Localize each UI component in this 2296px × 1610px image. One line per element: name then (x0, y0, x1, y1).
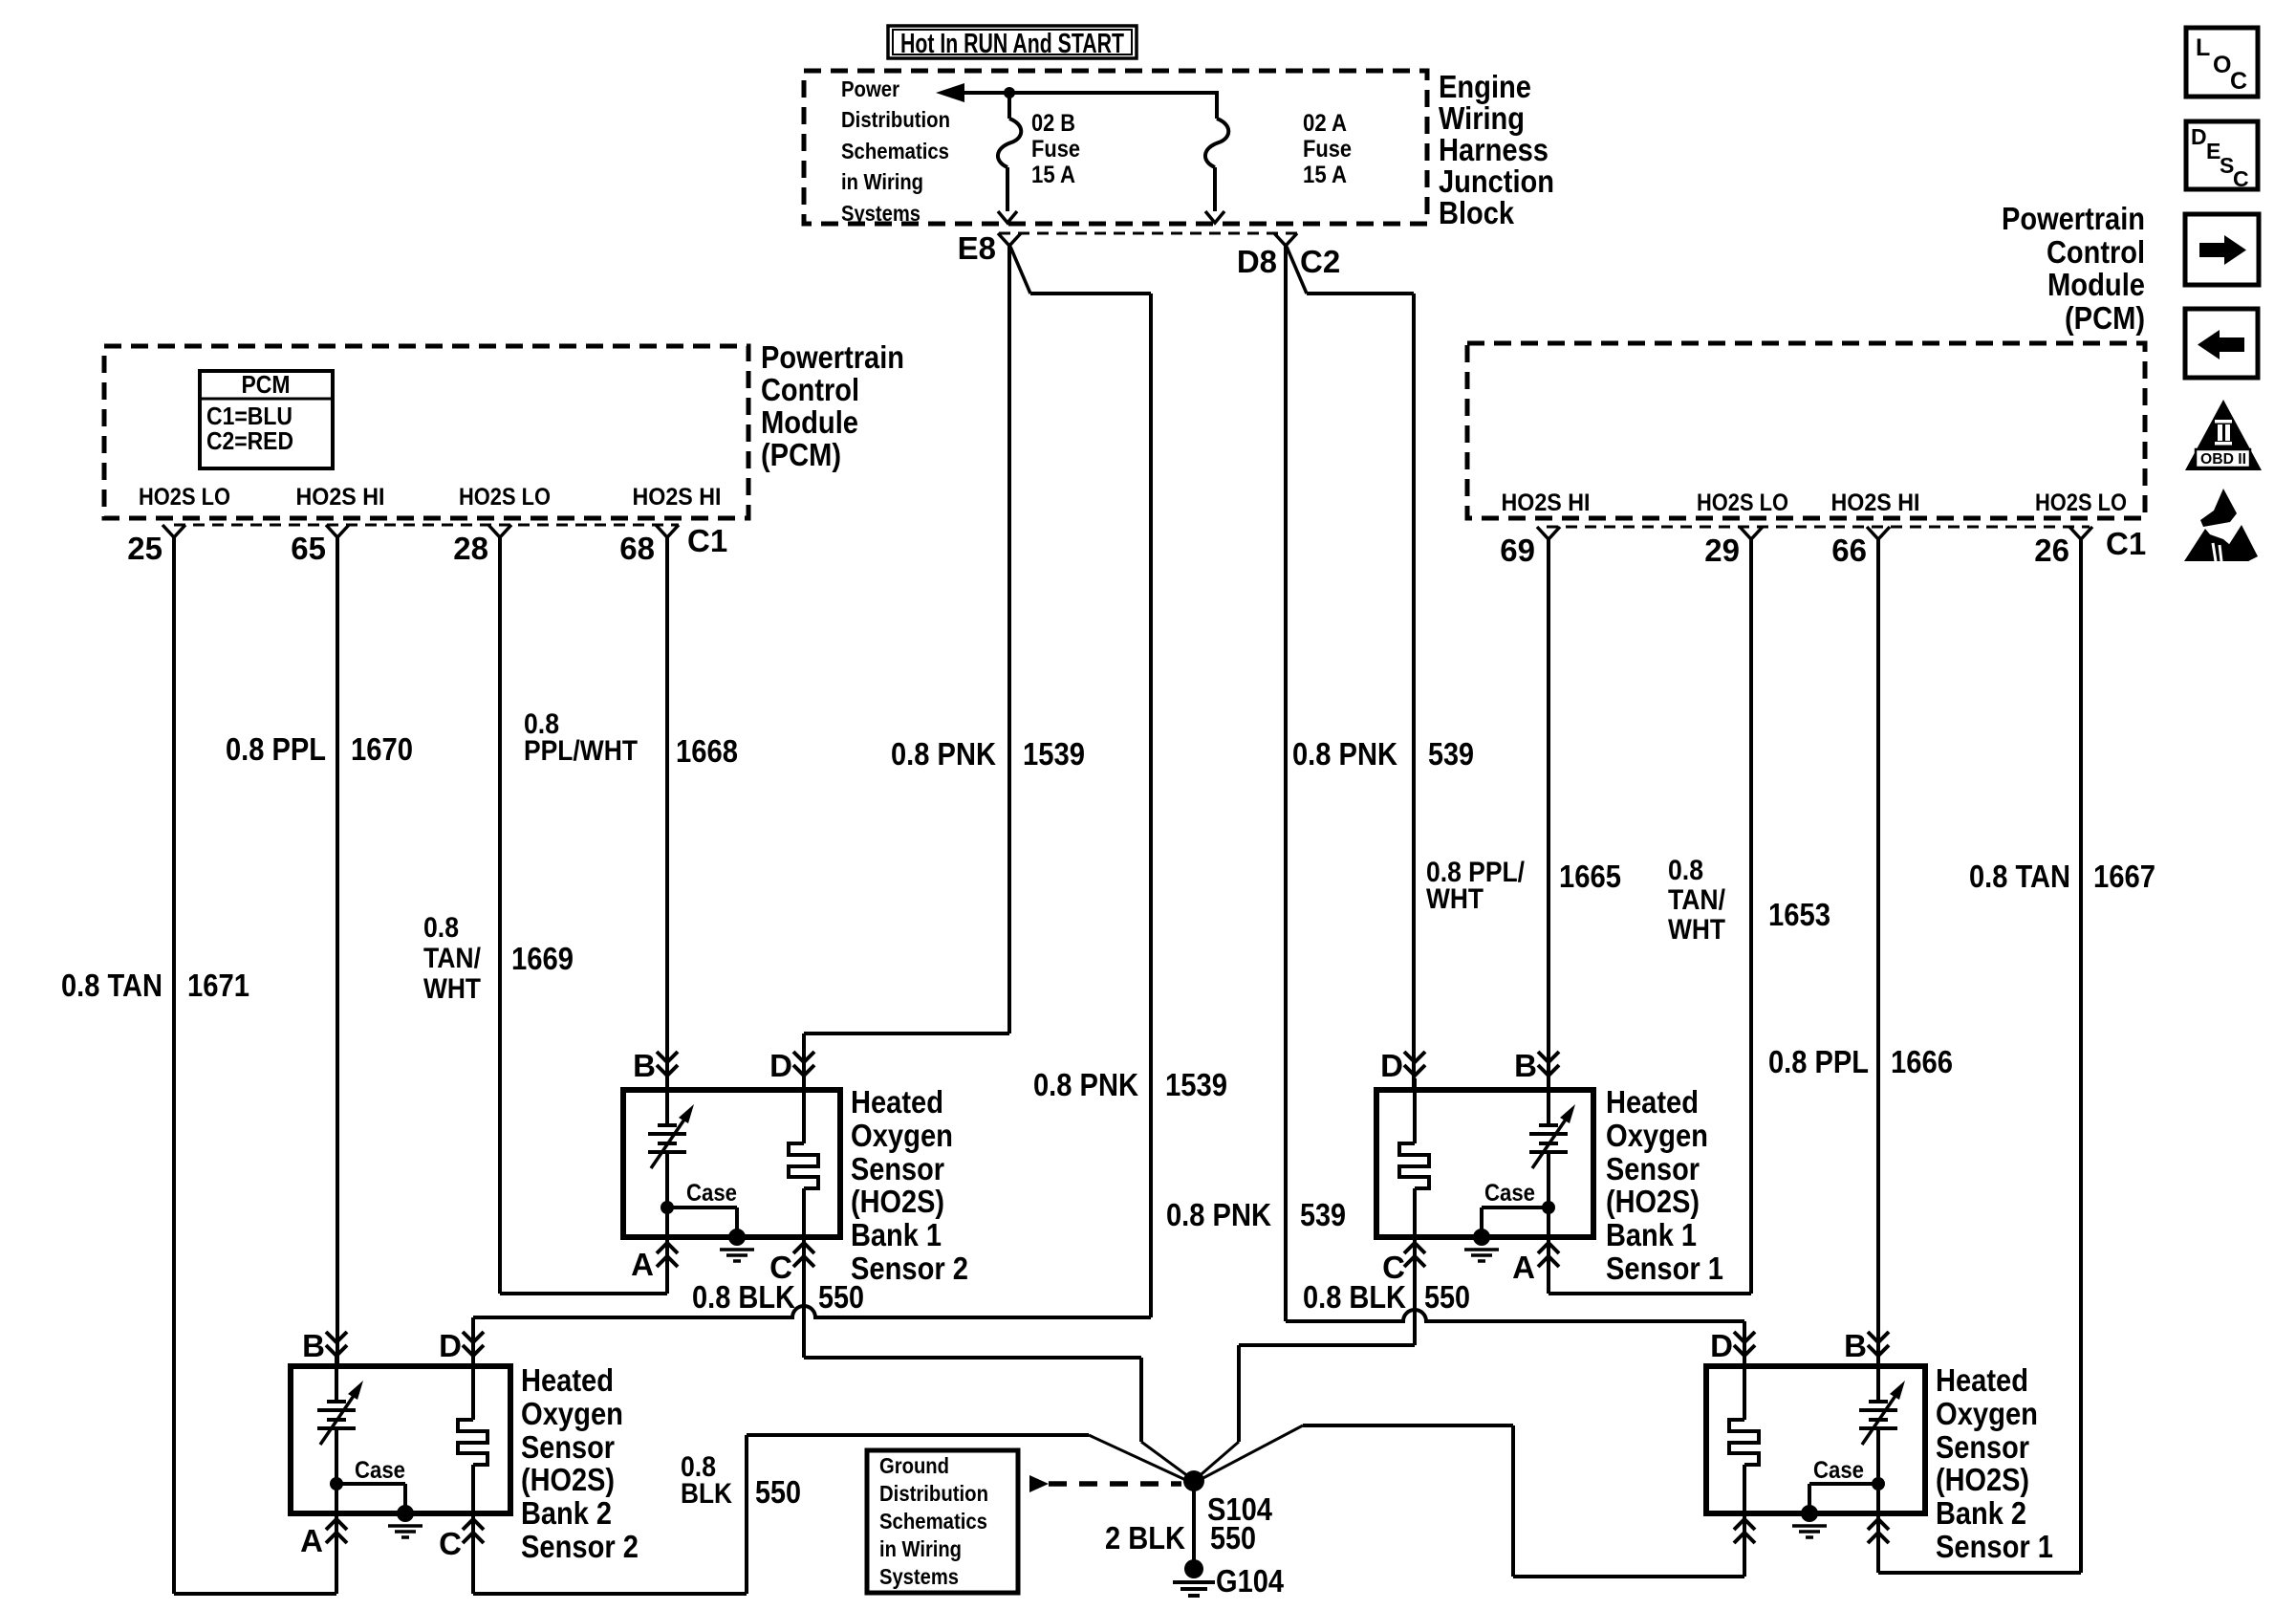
svg-text:in Wiring: in Wiring (841, 169, 923, 194)
left PCM C1 connector dashed line (174, 524, 679, 527)
svg-text:2 BLK: 2 BLK (1105, 1520, 1185, 1556)
wire 2 BLK 550 from S104 to G104 (1192, 1481, 1196, 1569)
HO2S Bank 2 Sensor 1 box (1706, 1366, 1925, 1513)
svg-text:(HO2S): (HO2S) (521, 1462, 615, 1497)
wire 0.8 PNK 539 from C2 down (1284, 245, 1288, 1321)
svg-text:Sensor: Sensor (521, 1429, 615, 1465)
svg-text:WHT: WHT (423, 973, 481, 1005)
svg-text:Module: Module (2047, 267, 2145, 302)
splice feed slant (B2S1) (1198, 1425, 1303, 1481)
B2S2 connector C chevrons (463, 1519, 484, 1530)
HO2S Bank 1 Sensor 2 box (623, 1090, 840, 1237)
svg-text:Oxygen: Oxygen (521, 1396, 623, 1431)
svg-text:Engine: Engine (1439, 69, 1531, 104)
svg-text:0.8 BLK: 0.8 BLK (1303, 1279, 1406, 1315)
B1S1 heater element (1399, 1143, 1429, 1188)
B2S1 connector B chevrons (1868, 1332, 1889, 1342)
svg-text:B: B (1514, 1048, 1537, 1083)
svg-text:1539: 1539 (1165, 1067, 1227, 1102)
svg-text:Fuse: Fuse (1303, 136, 1352, 163)
B1S2 connector C chevrons (793, 1243, 814, 1253)
dashed reference arrow to S104 (1029, 1475, 1049, 1492)
svg-text:Hot In RUN And START: Hot In RUN And START (900, 29, 1124, 59)
svg-text:A: A (300, 1523, 323, 1558)
wire: hot feed bus with arrow to power distribution (963, 91, 1217, 95)
B2S2 sensing element (327, 1400, 346, 1403)
svg-text:Systems: Systems (879, 1564, 959, 1589)
Powertrain Control Module PCM (right, dashed box) (1467, 343, 2145, 518)
svg-text:0.8 PNK: 0.8 PNK (1033, 1067, 1138, 1102)
svg-text:68: 68 (619, 531, 655, 566)
B1S1 case ground (1542, 1201, 1555, 1214)
svg-text:1671: 1671 (187, 968, 249, 1003)
wire 0.8 PPL 1666 from pin 66 to B2S1 sense B (1876, 538, 1880, 1366)
svg-text:HO2S LO: HO2S LO (2035, 490, 2127, 516)
svg-text:C2: C2 (1300, 244, 1340, 279)
B2S1 heater element (1729, 1420, 1759, 1465)
svg-text:D8: D8 (1237, 244, 1277, 279)
svg-text:1670: 1670 (351, 731, 413, 767)
svg-text:D: D (1380, 1048, 1403, 1083)
svg-text:1539: 1539 (1023, 736, 1085, 772)
wire 0.8 TAN/WHT 1653 from pin 29 to B1S1 sense A (1749, 538, 1753, 1294)
B2S2 sense wire B (335, 1355, 338, 1402)
svg-text:Sensor 2: Sensor 2 (521, 1529, 639, 1564)
pin 25 (162, 525, 185, 537)
power feed title box: Hot In RUN And START (888, 26, 1137, 58)
svg-text:Sensor 1: Sensor 1 (1606, 1251, 1723, 1286)
svg-text:D: D (439, 1328, 462, 1363)
svg-text:HO2S LO: HO2S LO (459, 484, 551, 511)
B1S1 sense wire B (1547, 1078, 1550, 1125)
svg-text:Distribution: Distribution (879, 1481, 988, 1506)
svg-text:WHT: WHT (1668, 914, 1725, 946)
svg-text:A: A (631, 1247, 654, 1282)
svg-text:Powertrain: Powertrain (761, 339, 904, 375)
svg-text:G104: G104 (1216, 1563, 1285, 1599)
svg-text:C: C (439, 1526, 462, 1561)
wire 0.8 TAN 1671 from pin 25 (172, 536, 176, 1594)
svg-text:PCM: PCM (242, 370, 291, 399)
junction block connector dashed line (999, 232, 1300, 235)
svg-text:Block: Block (1439, 195, 1515, 230)
wire 0.8 BLK 550 from B2S1 heater C (1743, 1513, 1746, 1577)
ground G104 (1184, 1559, 1203, 1578)
svg-text:(HO2S): (HO2S) (1606, 1184, 1700, 1219)
svg-text:HO2S HI: HO2S HI (1831, 490, 1920, 516)
pin 68 (656, 525, 679, 537)
wire 0.8 PNK 1539 from E8 down (1007, 245, 1011, 1033)
svg-text:Junction: Junction (1439, 163, 1554, 199)
svg-text:539: 539 (1428, 736, 1474, 772)
svg-text:1666: 1666 (1891, 1044, 1953, 1079)
svg-text:Bank 2: Bank 2 (521, 1495, 612, 1531)
svg-text:0.8 BLK: 0.8 BLK (692, 1279, 795, 1315)
pin 66 (1867, 527, 1890, 539)
B2S2 connector D chevrons (463, 1332, 484, 1342)
Engine Wiring Harness Junction Block (dashed box) (804, 71, 1427, 224)
svg-text:Heated: Heated (851, 1084, 943, 1120)
B1S2 sense wire B (665, 1078, 669, 1125)
svg-text:Systems: Systems (841, 201, 921, 226)
svg-text:Sensor 2: Sensor 2 (851, 1251, 968, 1286)
pin 69 (1537, 527, 1560, 539)
icon arrow left box (2185, 309, 2258, 378)
svg-text:C1: C1 (2106, 526, 2146, 561)
B1S1 sensing element (1539, 1123, 1558, 1127)
right PCM C1 connector dashed line (1547, 526, 2090, 529)
icon arrow right box (2185, 214, 2259, 285)
svg-text:0.8 PPL: 0.8 PPL (226, 731, 326, 767)
B1S2 heater element (789, 1143, 818, 1188)
svg-text:02 A: 02 A (1303, 110, 1347, 137)
svg-text:D: D (769, 1048, 792, 1083)
svg-text:HO2S HI: HO2S HI (1502, 490, 1591, 516)
svg-text:OBD II: OBD II (2200, 451, 2246, 468)
svg-text:Fuse: Fuse (1031, 136, 1080, 163)
icon LOC box (2186, 28, 2258, 97)
svg-text:550: 550 (755, 1474, 801, 1510)
wire 0.8 TAN/WHT 1669 from pin 28 to B1S2 sense A (498, 536, 502, 1294)
svg-text:Oxygen: Oxygen (1936, 1396, 2038, 1431)
B1S2 heater wire D (802, 1078, 806, 1143)
svg-text:Powertrain: Powertrain (2002, 201, 2145, 236)
svg-text:1669: 1669 (511, 941, 574, 976)
svg-text:1665: 1665 (1559, 859, 1621, 894)
svg-text:Case: Case (1813, 1457, 1864, 1484)
svg-text:550: 550 (1210, 1520, 1256, 1556)
svg-text:Heated: Heated (1606, 1084, 1699, 1120)
svg-text:E8: E8 (958, 230, 996, 266)
PNK 539 feed run to B2S1 heater D (hops over BLK wire) (1286, 1310, 1744, 1321)
svg-text:C1: C1 (687, 523, 727, 558)
svg-text:HO2S LO: HO2S LO (1697, 490, 1788, 516)
svg-text:28: 28 (453, 531, 488, 566)
svg-text:C2=RED: C2=RED (206, 426, 293, 455)
B2S1 connector C chevrons (1734, 1519, 1755, 1530)
icon ESD warning symbol (2200, 489, 2237, 527)
Powertrain Control Module PCM (left, dashed box) (104, 346, 748, 518)
connector pins D8 / C2 (1274, 233, 1297, 246)
B2S1 heater wire D (1743, 1355, 1746, 1420)
B2S1 connector A chevrons (1868, 1519, 1889, 1530)
svg-text:WHT: WHT (1426, 883, 1484, 915)
svg-text:Case: Case (355, 1457, 405, 1484)
svg-text:0.8 PNK: 0.8 PNK (891, 736, 996, 772)
wire 0.8 BLK 550 from B2S2 heater C (471, 1513, 475, 1594)
wire 0.8 BLK 550 from B1S1 heater C (1413, 1239, 1417, 1345)
B1S1 connector B chevrons (1538, 1052, 1559, 1062)
B1S1 connector A chevrons (1538, 1243, 1559, 1253)
wire 0.8 PPL/WHT 1668 from pin 68 to B1S2 sense B (665, 536, 669, 1090)
splice feed slant (B1S2) (1141, 1442, 1192, 1479)
svg-text:L: L (2196, 34, 2210, 61)
svg-text:15 A: 15 A (1031, 162, 1075, 188)
icon DESC box (2186, 121, 2258, 189)
junction dot on feed bus (1004, 87, 1015, 98)
PNK 1539 feed run to B2S2 heater D (hops over BLK wire) (473, 1306, 1151, 1317)
svg-text:15 A: 15 A (1303, 162, 1347, 188)
PCM connector color legend box (200, 371, 333, 468)
svg-text:B: B (302, 1328, 325, 1363)
svg-text:C: C (2230, 68, 2247, 95)
svg-text:Wiring: Wiring (1439, 100, 1525, 136)
fuse 02 A 15A (1215, 91, 1219, 119)
svg-text:Bank 2: Bank 2 (1936, 1495, 2026, 1531)
splice S104 (1183, 1470, 1204, 1491)
svg-text:65: 65 (291, 531, 326, 566)
B2S1 sensing element (1869, 1400, 1888, 1403)
svg-text:Control: Control (761, 372, 859, 407)
connector pin E8 (998, 233, 1021, 246)
branch wire from C2 to PNK 539 drop to B1S1 heater D (1287, 247, 1307, 294)
fuse 02 B 15A (1007, 93, 1011, 119)
svg-text:Bank 1: Bank 1 (1606, 1217, 1697, 1252)
splice feed slant (B1S1) (1196, 1442, 1239, 1479)
svg-text:Control: Control (2047, 234, 2145, 270)
svg-text:O: O (2213, 52, 2231, 78)
svg-text:0.8 PPL: 0.8 PPL (1768, 1044, 1869, 1079)
svg-text:(HO2S): (HO2S) (1936, 1462, 2029, 1497)
svg-text:Oxygen: Oxygen (851, 1118, 953, 1153)
svg-text:HO2S HI: HO2S HI (296, 484, 385, 511)
svg-text:(PCM): (PCM) (761, 437, 841, 472)
svg-text:Sensor 1: Sensor 1 (1936, 1529, 2053, 1564)
svg-text:TAN/: TAN/ (423, 943, 482, 974)
B1S2 connector B chevrons (657, 1052, 678, 1062)
svg-text:Sensor: Sensor (1936, 1429, 2029, 1465)
svg-text:26: 26 (2034, 533, 2069, 568)
svg-text:C: C (2233, 166, 2249, 191)
B1S1 connector D chevrons (1404, 1052, 1425, 1062)
svg-text:Heated: Heated (1936, 1362, 2028, 1398)
svg-text:0.8: 0.8 (1668, 855, 1703, 886)
wire corner to HO2S B1S2 heater D (804, 1032, 1009, 1035)
svg-text:(PCM): (PCM) (2065, 300, 2145, 336)
B2S2 case ground (330, 1477, 343, 1490)
pin 65 (326, 525, 349, 537)
svg-text:(HO2S): (HO2S) (851, 1184, 944, 1219)
pin 29 (1740, 527, 1763, 539)
svg-text:D: D (2191, 124, 2207, 149)
B2S2 heater wire D (471, 1355, 475, 1420)
svg-text:Bank 1: Bank 1 (851, 1217, 942, 1252)
svg-text:HO2S LO: HO2S LO (139, 484, 230, 511)
svg-text:Case: Case (1484, 1180, 1535, 1207)
svg-text:66: 66 (1831, 533, 1867, 568)
svg-text:25: 25 (127, 531, 162, 566)
svg-text:0.8 TAN: 0.8 TAN (1969, 859, 2070, 894)
wire 0.8 TAN 1667 from pin 26 to B2S1 sense A (2079, 538, 2083, 1573)
svg-text:Distribution: Distribution (841, 107, 950, 132)
B2S2 connector B chevrons (326, 1332, 347, 1342)
branch wire from E8 to second PNK 1539 drop (1010, 247, 1030, 294)
svg-text:BLK: BLK (681, 1478, 732, 1510)
svg-text:Sensor: Sensor (851, 1151, 944, 1186)
B1S2 sensing element (658, 1123, 677, 1127)
svg-text:550: 550 (818, 1279, 864, 1315)
pin 28 (488, 525, 511, 537)
svg-text:Ground: Ground (879, 1453, 949, 1478)
wire 0.8 PPL 1670 from pin 65 to B2S2 sense B (336, 536, 339, 1366)
svg-text:Case: Case (686, 1180, 737, 1207)
splice feed slant (B2S2) (1089, 1435, 1192, 1483)
ground distribution reference box (867, 1450, 1018, 1593)
svg-text:1668: 1668 (676, 733, 738, 769)
svg-text:0.8 TAN: 0.8 TAN (61, 968, 162, 1003)
svg-text:539: 539 (1300, 1197, 1346, 1232)
icon OBD II triangle (2185, 400, 2262, 470)
wire 0.8 BLK 550 from B1S2 heater C (802, 1239, 806, 1358)
HO2S Bank 2 Sensor 2 box (291, 1366, 510, 1513)
B2S2 connector A chevrons (326, 1519, 347, 1530)
svg-text:B: B (1844, 1328, 1867, 1363)
svg-text:A: A (1512, 1250, 1535, 1285)
svg-text:Module: Module (761, 404, 858, 440)
svg-text:Heated: Heated (521, 1362, 614, 1398)
B1S2 case ground (661, 1201, 674, 1214)
svg-text:in Wiring: in Wiring (879, 1536, 962, 1561)
svg-text:0.8 PNK: 0.8 PNK (1166, 1197, 1271, 1232)
B1S2 connector A chevrons (657, 1243, 678, 1253)
svg-text:1653: 1653 (1768, 897, 1830, 932)
HO2S Bank 1 Sensor 1 box (1376, 1090, 1593, 1237)
svg-text:02 B: 02 B (1031, 110, 1075, 137)
svg-text:D: D (1710, 1328, 1733, 1363)
svg-text:550: 550 (1424, 1279, 1470, 1315)
svg-text:69: 69 (1500, 533, 1535, 568)
B1S2 connector D chevrons (793, 1052, 814, 1062)
wire 0.8 PPL/WHT 1665 from pin 69 to B1S1 sense B (1547, 538, 1550, 1090)
svg-text:TAN/: TAN/ (1668, 884, 1726, 916)
pin 26 (2069, 527, 2092, 539)
B2S2 heater element (458, 1420, 487, 1465)
svg-text:B: B (633, 1048, 656, 1083)
B2S1 connector D chevrons (1734, 1332, 1755, 1342)
B2S1 sense wire B (1876, 1355, 1880, 1402)
B1S1 connector C chevrons (1404, 1243, 1425, 1253)
wire bottom run to B2S2 sense A (174, 1592, 336, 1596)
svg-text:PPL/WHT: PPL/WHT (524, 735, 638, 767)
svg-text:HO2S HI: HO2S HI (633, 484, 722, 511)
B2S1 case ground (1872, 1477, 1885, 1490)
svg-text:Oxygen: Oxygen (1606, 1118, 1708, 1153)
svg-text:29: 29 (1704, 533, 1740, 568)
svg-text:Sensor: Sensor (1606, 1151, 1700, 1186)
svg-text:Schematics: Schematics (879, 1509, 987, 1534)
svg-text:0.8: 0.8 (423, 912, 459, 944)
svg-text:Harness: Harness (1439, 132, 1549, 167)
B1S1 heater wire D (1413, 1078, 1417, 1143)
svg-text:1667: 1667 (2093, 859, 2155, 894)
svg-text:0.8 PNK: 0.8 PNK (1292, 736, 1397, 772)
svg-text:Power: Power (841, 76, 899, 101)
svg-text:Schematics: Schematics (841, 139, 949, 163)
